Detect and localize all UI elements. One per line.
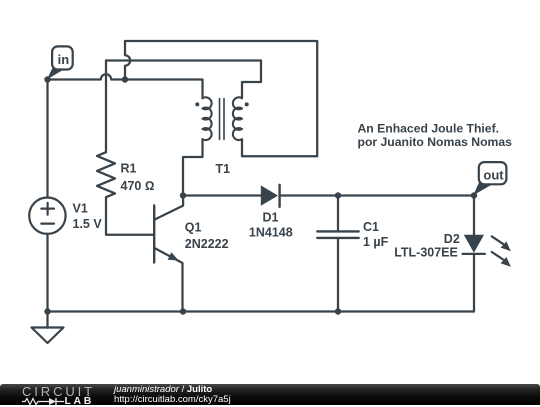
D2 light arrow 1 [492,236,503,244]
footer user and url text [114,386,231,405]
svg-text:1.5 V: 1.5 V [73,217,103,231]
svg-text:Q1: Q1 [185,221,202,235]
svg-text:1 µF: 1 µF [363,235,389,249]
diode D1 [249,185,293,240]
in flag box [52,46,73,69]
wire top loop to right winding bottom [125,41,317,156]
Q1 collector lead [154,196,183,220]
wire vertical from node B up with hop, to top loop [125,41,130,80]
Q1 emitter arrow [168,252,179,260]
voltage source V1 [29,198,102,234]
CircuitLab logo text CIRCUIT [22,384,95,399]
svg-text:C1: C1 [363,220,379,234]
CircuitLab logo zigzag and diode [22,397,65,406]
LED D2 [394,196,511,312]
T1 secondary phase dot [245,102,249,106]
T1 secondary winding [233,97,242,140]
T1 primary phase dot [195,102,199,106]
flag in [47,46,73,79]
node C1 top [335,192,341,198]
svg-text:D2: D2 [444,232,460,246]
svg-text:V1: V1 [73,202,88,216]
D2 anode lead [473,196,475,235]
D1 cathode bar [278,185,280,207]
resistor R1 [97,152,154,197]
svg-text:2N2222: 2N2222 [185,237,229,251]
Q1 base bar [153,206,155,263]
Q1 emitter lead [154,248,182,312]
capacitor C1 [317,196,388,312]
in flag tail [47,68,64,80]
D1 anode triangle [261,185,278,205]
footer bar [0,384,540,405]
wire horizontal upper feedback from R1 top corner [106,61,261,99]
wire left winding bottom to collector node [183,139,203,195]
svg-text:1N4148: 1N4148 [249,226,293,240]
T1 core [220,99,225,140]
svg-text:LTL-307EE: LTL-307EE [394,246,458,260]
C1 top lead [337,196,339,231]
node collector [180,192,186,198]
out flag box [479,162,507,184]
D2 anode triangle [464,235,484,253]
svg-text:470 Ω: 470 Ω [121,179,155,193]
wire bottom rail [48,310,475,312]
svg-text:in: in [58,52,70,67]
node B [122,76,128,82]
D2 cathode bar [463,253,485,255]
out flag tail [473,183,492,196]
flag out [473,162,506,195]
node A [44,76,50,82]
wire collector rail to out node [183,194,474,196]
C1 plates [317,231,358,238]
svg-text:R1: R1 [121,162,137,176]
node out [471,192,477,198]
D2 light arrow 2 [492,252,503,260]
node ground [44,308,50,314]
T1 primary winding [203,97,212,140]
wire V1 bottom to ground node [46,234,48,312]
svg-text:por Juanito Nomas Nomas: por Juanito Nomas Nomas [358,135,513,149]
wire vertical node A to V1 top [46,80,48,198]
CircuitLab logo text LAB [65,395,94,407]
V1 plus/minus marks [41,203,54,224]
wire vertical from R1 top up to corner [105,61,107,153]
transformer T1 [195,97,248,176]
svg-text:An Enhaced Joule Thief.: An Enhaced Joule Thief. [358,122,500,136]
svg-text:D1: D1 [263,211,279,225]
svg-text:T1: T1 [216,162,231,176]
D2 cathode lead [473,254,475,312]
ground [32,312,64,344]
node C1 bottom [335,308,341,314]
wire R1 bottom to Q1 base [106,197,154,235]
C1 bottom lead [337,239,339,311]
title text [358,122,513,150]
wire top horizontal from node A to transformer left winding (hop over R1 wire) [48,74,203,98]
node emitter bottom [180,308,186,314]
transistor Q1 [154,196,228,312]
svg-text:out: out [483,168,504,183]
